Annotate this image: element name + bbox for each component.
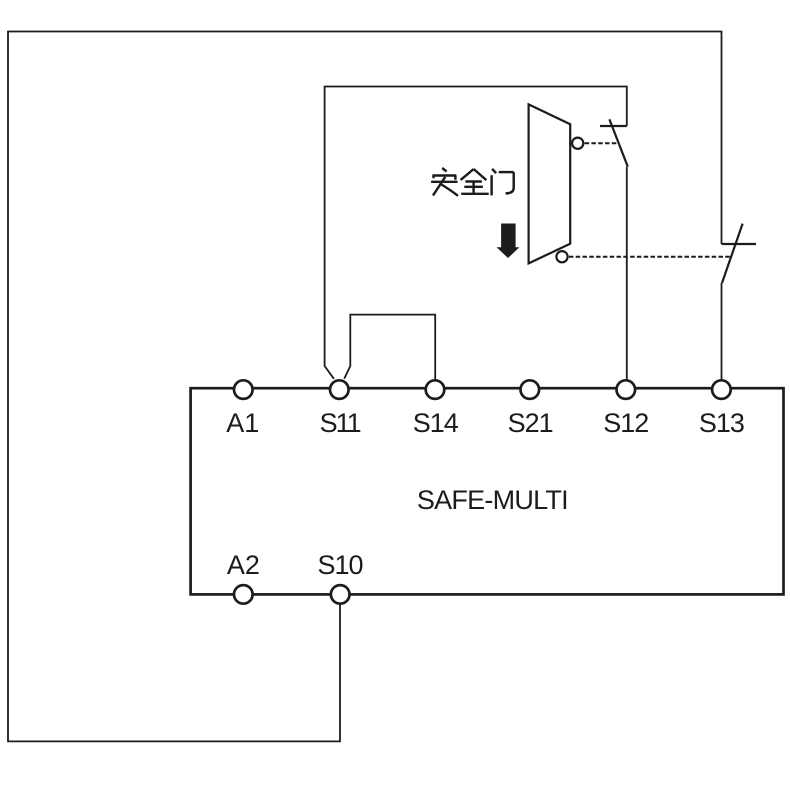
svg-text:S13: S13 bbox=[699, 408, 744, 438]
wire: inner loop S11 up over to switch S12 bbox=[325, 87, 627, 379]
safety door panel bbox=[529, 104, 571, 263]
terminal S12 bbox=[617, 380, 636, 399]
relay box SAFE-MULTI bbox=[191, 388, 784, 594]
svg-text:S14: S14 bbox=[413, 408, 459, 438]
svg-text:A2: A2 bbox=[227, 550, 260, 580]
svg-text:S10: S10 bbox=[317, 550, 362, 580]
svg-text:S12: S12 bbox=[603, 408, 648, 438]
switch S13 blade bbox=[722, 224, 743, 283]
wire: jumper S11 to S14 bbox=[344, 315, 435, 389]
terminal A2 bbox=[234, 585, 253, 604]
switch S12 fixed contact bar bbox=[600, 125, 627, 127]
terminal S11 bbox=[330, 380, 349, 399]
svg-text:S21: S21 bbox=[508, 408, 553, 438]
label 门 bbox=[492, 169, 514, 196]
door motion arrow bbox=[497, 224, 520, 259]
door roller contact (top) bbox=[572, 138, 583, 149]
door roller contact (bottom) bbox=[556, 251, 567, 262]
terminal S10 bbox=[331, 585, 350, 604]
terminal S14 bbox=[426, 380, 445, 399]
wire: switch S12 to terminal S12 bbox=[626, 167, 628, 389]
label 全 bbox=[461, 169, 489, 194]
svg-text:SAFE-MULTI: SAFE-MULTI bbox=[417, 485, 568, 515]
switch S13 fixed contact bar bbox=[722, 243, 757, 245]
dashed actuator link (bottom) bbox=[569, 256, 731, 258]
terminal S13 bbox=[712, 380, 731, 399]
wire: switch S13 to terminal S13 bbox=[721, 283, 723, 389]
svg-text:A1: A1 bbox=[226, 408, 259, 438]
switch S12 blade bbox=[609, 119, 627, 166]
svg-text:S11: S11 bbox=[320, 408, 361, 438]
label 安 (safety door text) bbox=[431, 168, 458, 196]
terminal S21 bbox=[521, 380, 540, 399]
dashed actuator link (top) bbox=[585, 142, 619, 144]
terminal A1 bbox=[234, 380, 253, 399]
